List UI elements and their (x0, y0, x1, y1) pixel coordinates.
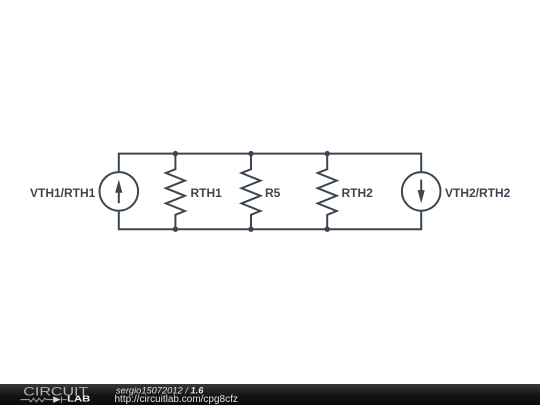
wire top rail (119, 154, 421, 173)
arrow of I2 (down) (420, 180, 422, 197)
junction node RTH1 top (173, 151, 178, 156)
junction node RTH1 bottom (173, 227, 178, 232)
resistor RTH2 (318, 154, 337, 230)
arrow of I1 (up) (118, 186, 120, 203)
junction node R5 bottom (248, 227, 253, 232)
logo resistor-diode line (21, 397, 67, 403)
junction node RTH2 bottom (325, 227, 330, 232)
svg-text:LAB: LAB (67, 395, 90, 404)
junction node R5 top (248, 151, 253, 156)
footer bar (0, 384, 540, 405)
label RTH2 (342, 187, 373, 199)
current source I2 VTH2/RTH2 (402, 172, 441, 211)
logo diode triangle (53, 397, 60, 403)
current source I1 VTH1/RTH1 (100, 172, 139, 211)
junction node RTH2 top (325, 151, 330, 156)
resistor RTH1 (166, 154, 185, 230)
resistor R5 (242, 154, 261, 230)
label VTH2/RTH2 (445, 187, 510, 199)
wire bottom rail (119, 211, 421, 230)
svg-text:http://circuitlab.com/cpg8cfz: http://circuitlab.com/cpg8cfz (115, 394, 238, 405)
label VTH1/RTH1 (30, 187, 95, 199)
label R5 (265, 187, 280, 199)
label RTH1 (191, 187, 222, 199)
